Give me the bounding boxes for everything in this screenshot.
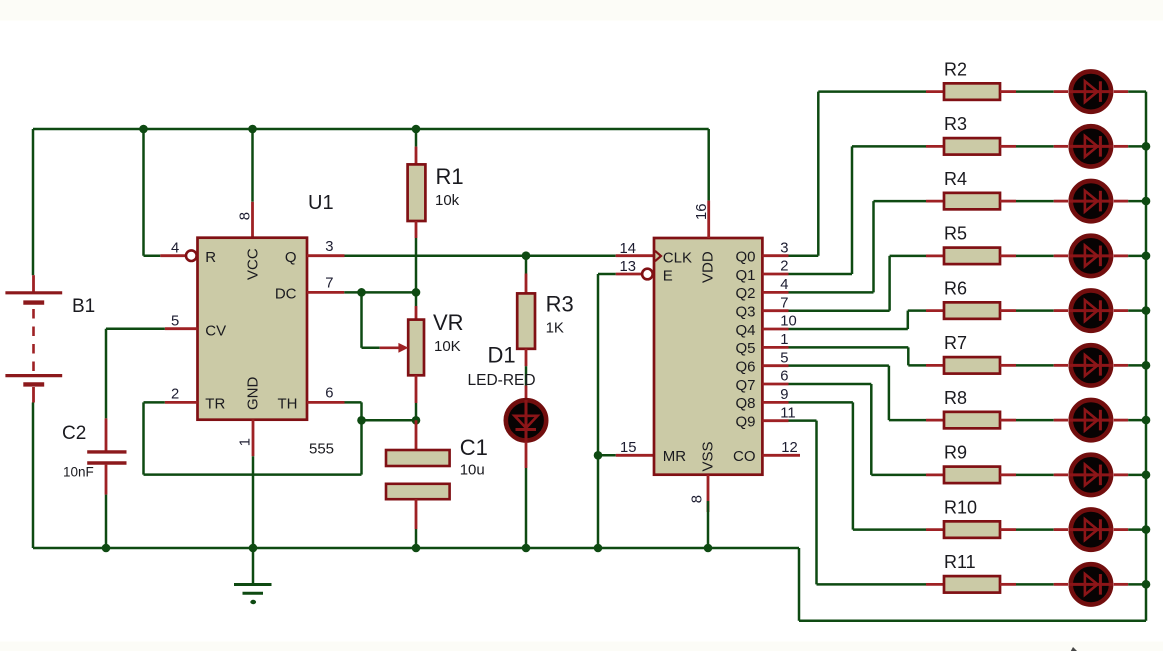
svg-text:R4: R4 [944,169,967,189]
wire counter Q5 (pin 1) to R7 [762,346,788,349]
svg-text:VSS: VSS [700,441,717,471]
svg-text:Q0: Q0 [735,249,755,266]
LED D2 [1016,90,1054,93]
wire lower bus [799,619,1146,622]
wire counter Q8 (pin 9) to R10 [762,401,788,404]
svg-text:4: 4 [780,277,788,293]
node DC junction [357,288,366,297]
svg-text:R11: R11 [944,552,976,572]
wire 555 CV (pin5) to C2 [165,327,198,330]
node LED rail junction [1142,252,1151,261]
svg-text:14: 14 [620,241,636,257]
LED D9 [1016,474,1054,477]
svg-text:R8: R8 [944,388,967,408]
svg-text:R10: R10 [944,497,977,517]
wire counter Q6 (pin 5) to R8 [762,364,788,367]
svg-text:R3: R3 [546,292,574,317]
ground symbol [252,548,255,584]
wire 555 DC (pin7) [307,291,344,294]
capacitor C1 [415,420,418,450]
node bottom rail junctions [102,544,111,553]
svg-text:10u: 10u [460,462,485,479]
LED D5 [1016,255,1054,258]
LED D3 [1016,145,1054,148]
svg-text:R: R [205,249,216,266]
svg-text:E: E [663,268,673,285]
LED D4 [1016,200,1054,203]
LED D10 [1016,528,1054,531]
node: R-pin riser from top rail [142,129,145,256]
IC U2 4017 counter body [654,238,762,475]
wire counter Q2 (pin 4) to R4 [762,291,788,294]
wire left rail upper [32,129,35,275]
svg-text:Q8: Q8 [735,395,755,412]
svg-text:8: 8 [690,495,706,503]
VR wiper arm [360,292,363,347]
resistor R8 [926,419,944,422]
wire bottom ground rail [33,547,799,550]
wire bottom-right drop [798,548,801,621]
svg-text:GND: GND [244,377,261,411]
svg-text:Q2: Q2 [735,285,755,302]
resistor R9 [926,473,944,476]
LED D7 [1016,364,1054,367]
svg-text:R7: R7 [944,333,967,353]
svg-text:4: 4 [171,241,179,257]
node LED rail junction [1142,580,1151,589]
wire counter Q4 (pin 10) to R6 [762,328,788,331]
svg-text:10: 10 [780,314,796,330]
wire 555 GND (pin1) to rail [252,420,255,457]
svg-text:CV: CV [205,322,226,339]
resistor R2 [926,90,944,93]
svg-text:10k: 10k [435,192,460,209]
wire left rail lower [32,403,35,549]
wire top power rail [33,128,709,131]
svg-text:2: 2 [171,387,179,403]
svg-text:LED-RED: LED-RED [468,372,536,389]
svg-text:12: 12 [781,440,797,456]
node LED rail junction [1142,416,1151,425]
svg-text:7: 7 [325,276,333,292]
svg-text:TR: TR [205,396,225,413]
svg-text:7: 7 [780,295,788,311]
capacitor C2 [105,418,108,450]
svg-text:6: 6 [325,386,333,402]
wire counter Q1 (pin 2) to R3 [762,273,788,276]
resistor R3 [525,256,528,274]
battery B1 [32,275,35,292]
svg-text:6: 6 [780,369,788,385]
svg-text:11: 11 [780,405,795,421]
LED D6 [1016,309,1054,312]
svg-text:3: 3 [780,240,788,256]
resistor R4 [926,200,944,203]
LED D8 [1016,419,1054,422]
wire 555 VCC to rail [251,129,254,202]
svg-text:9: 9 [780,387,788,403]
wire 555 Q (pin3) to counter CLK (pin14) [307,254,345,257]
svg-text:Q6: Q6 [735,358,755,375]
svg-text:5: 5 [171,313,179,329]
svg-text:DC: DC [275,286,297,303]
wire right LED rail [1145,92,1148,621]
cursor mark bottom right [1071,647,1077,651]
resistor R1 [415,129,418,147]
wire counter Q0 (pin 3) to R2 [762,254,788,257]
wire counter Q3 (pin 7) to R5 [762,309,788,312]
svg-text:13: 13 [620,259,636,275]
resistor R5 [926,254,944,257]
LED D11 [1016,583,1054,586]
svg-text:D1: D1 [488,343,516,368]
svg-text:Q3: Q3 [735,303,755,320]
svg-text:R5: R5 [944,224,967,244]
LED D1 [506,400,546,440]
pin 8 stub (555 VCC) [251,202,254,239]
wire 555 TH (pin6) [307,401,345,404]
top off-white band [0,0,1163,21]
svg-text:3: 3 [325,239,333,255]
svg-text:8: 8 [238,212,254,220]
wire counter VSS (pin8) to rail [707,475,710,512]
svg-text:R9: R9 [944,443,967,463]
wire 555 TR (pin2) loop to TH [165,401,198,404]
node MR junction [594,451,603,460]
node LED rail junction [1142,142,1151,151]
svg-text:10K: 10K [434,338,461,355]
svg-text:Q1: Q1 [735,267,755,284]
svg-text:VCC: VCC [244,248,261,280]
node LED rail junction [1142,471,1151,480]
svg-text:R6: R6 [944,278,967,298]
svg-text:Q5: Q5 [735,340,755,357]
node top rail junctions [139,125,148,134]
svg-text:15: 15 [620,440,636,456]
bottom off-white band [0,642,1163,651]
potentiometer VR [415,292,418,306]
svg-text:5: 5 [780,350,788,366]
svg-text:CLK: CLK [663,249,692,266]
svg-text:16: 16 [694,204,710,220]
svg-text:R3: R3 [944,114,967,134]
resistor R10 [926,528,944,531]
wire counter Q9 (pin 11) to R11 [762,419,788,422]
counter CO stub (pin12) [762,454,800,457]
node LED rail junction [1142,525,1151,534]
svg-text:1: 1 [780,332,788,348]
node LED rail junction [1142,361,1151,370]
svg-text:Q7: Q7 [735,377,755,394]
node LED rail junction [1142,306,1151,315]
resistor R7 [926,364,944,367]
svg-text:2: 2 [780,259,788,275]
svg-text:R2: R2 [944,59,967,79]
svg-text:10nF: 10nF [63,465,94,480]
svg-text:C1: C1 [460,435,488,460]
svg-text:TH: TH [278,396,298,413]
svg-text:555: 555 [309,441,334,458]
svg-text:1: 1 [237,438,253,446]
wire counter E (pin13) / MR (pin15) tie [616,273,642,276]
svg-text:C2: C2 [62,423,86,444]
svg-text:Q: Q [285,249,297,266]
svg-text:Q9: Q9 [735,413,755,430]
pin 4 stub with bubble (555 R) [160,254,186,257]
resistor R6 [926,309,944,312]
svg-text:Q4: Q4 [735,322,755,339]
clock input triangle [655,251,661,261]
svg-text:B1: B1 [72,296,95,317]
svg-text:MR: MR [663,448,686,465]
resistor R11 [926,583,944,586]
wire counter Q7 (pin 6) to R9 [762,383,788,386]
svg-text:1K: 1K [546,320,564,337]
IC U1 555 body [198,238,308,420]
node LED rail junction [1142,197,1151,206]
resistor R3 [926,145,944,148]
node TH junction row [362,419,417,422]
svg-text:U1: U1 [308,192,334,214]
svg-text:CO: CO [733,448,756,465]
wire counter VDD (pin16) to rail [707,129,710,201]
svg-text:R1: R1 [436,164,464,189]
svg-text:VR: VR [433,310,464,335]
svg-text:VDD: VDD [700,251,717,283]
